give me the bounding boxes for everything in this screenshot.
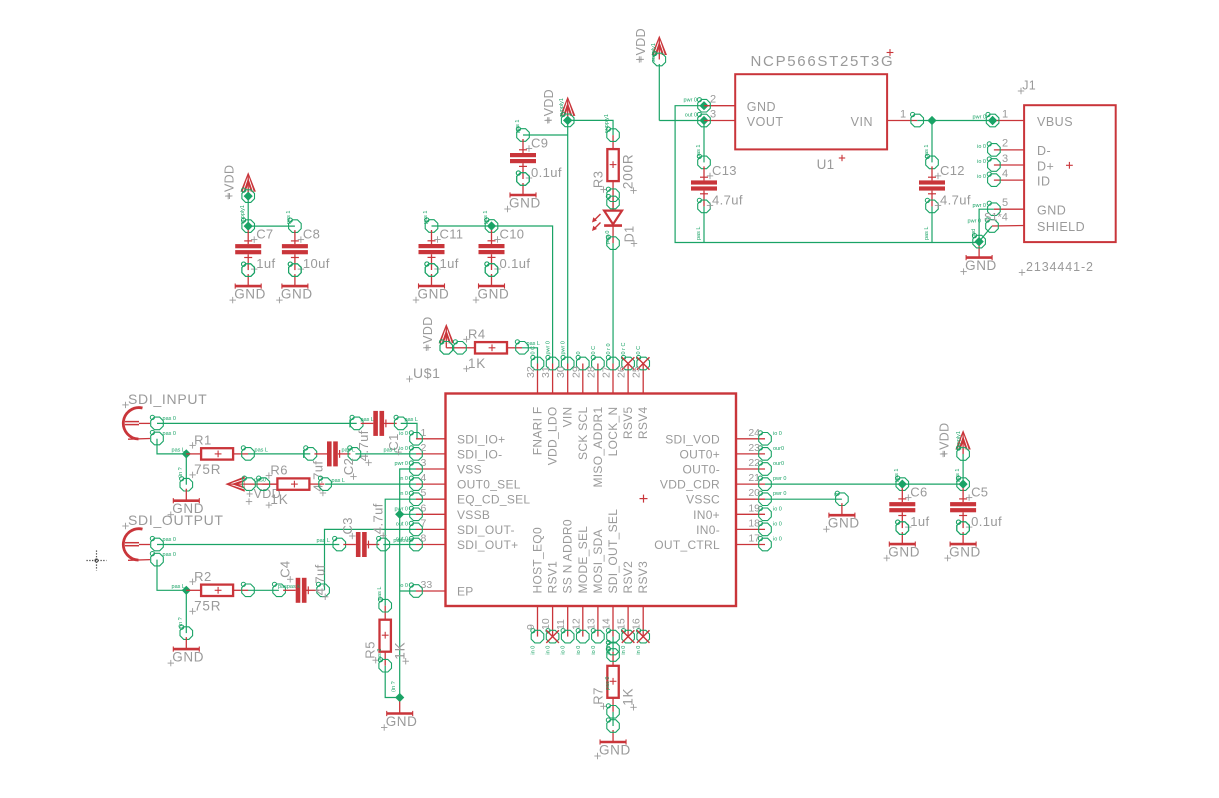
svg-text:in 0: in 0: [531, 646, 537, 655]
svg-text:C6: C6: [910, 485, 927, 500]
svg-text:16: 16: [631, 618, 643, 630]
svg-text:io 0: io 0: [576, 646, 582, 655]
svg-text:4.7uf: 4.7uf: [712, 192, 743, 207]
svg-text:0 r 0: 0 r 0: [606, 343, 612, 354]
svg-text:2: 2: [710, 94, 716, 106]
svg-text:io 0: io 0: [561, 646, 567, 655]
svg-text:pas 1: pas 1: [515, 120, 521, 133]
svg-text:pas L: pas L: [384, 448, 397, 454]
svg-text:io 0: io 0: [773, 506, 782, 512]
svg-text:pas 2: pas 2: [377, 649, 383, 662]
svg-text:C10: C10: [500, 227, 525, 242]
svg-text:supply1: supply1: [956, 431, 962, 450]
svg-text:pwr 0: pwr 0: [773, 476, 786, 482]
svg-text:R7: R7: [591, 687, 606, 705]
svg-text:C3: C3: [340, 517, 355, 534]
svg-text:14: 14: [601, 618, 613, 630]
svg-text:pas L: pas L: [342, 448, 355, 454]
svg-text:pwr 0: pwr 0: [395, 506, 408, 512]
svg-text:GND: GND: [949, 545, 981, 560]
svg-text:EP: EP: [457, 585, 474, 599]
svg-text:5: 5: [1002, 197, 1008, 209]
svg-text:22: 22: [748, 457, 760, 469]
svg-text:R2: R2: [194, 569, 212, 584]
svg-text:0: 0: [576, 351, 582, 354]
svg-text:paspas k: paspas k: [278, 584, 300, 590]
svg-text:26: 26: [616, 366, 628, 378]
svg-text:LOCK_N: LOCK_N: [606, 407, 620, 457]
svg-text:pas 0: pas 0: [163, 552, 176, 558]
svg-text:io 0: io 0: [977, 174, 986, 180]
svg-text:io 0: io 0: [591, 646, 597, 655]
svg-text:pas L: pas L: [405, 417, 418, 423]
svg-text:D+: D+: [1037, 159, 1054, 173]
svg-text:pas L: pas L: [317, 538, 330, 544]
svg-text:pas 1: pas 1: [924, 145, 930, 158]
svg-text:HOST_EQ0: HOST_EQ0: [531, 527, 545, 593]
svg-text:2: 2: [1002, 138, 1008, 150]
svg-text:+VDD: +VDD: [421, 316, 435, 351]
svg-text:C11: C11: [440, 227, 464, 242]
svg-text:+VDD: +VDD: [542, 89, 556, 124]
svg-text:FNARI F: FNARI F: [531, 407, 545, 456]
svg-text:gas L: gas L: [377, 587, 383, 600]
svg-text:in 0: in 0: [546, 646, 552, 655]
svg-text:pas 1: pas 1: [483, 211, 489, 224]
svg-text:5: 5: [421, 487, 427, 499]
svg-text:GND: GND: [172, 650, 204, 665]
svg-text:3: 3: [421, 457, 427, 469]
svg-text:in 0: in 0: [621, 646, 627, 655]
svg-text:RSV4: RSV4: [636, 406, 650, 439]
svg-text:pas 1: pas 1: [423, 211, 429, 224]
svg-text:GND: GND: [965, 258, 997, 273]
svg-text:SS N ADDR0: SS N ADDR0: [561, 519, 575, 593]
svg-text:our0: our0: [773, 461, 784, 467]
svg-text:1K: 1K: [621, 688, 636, 706]
svg-text:0.1uf: 0.1uf: [971, 514, 1002, 529]
svg-text:0.1uf: 0.1uf: [500, 256, 531, 271]
svg-text:supply1: supply1: [604, 114, 610, 133]
svg-text:(in ?: (in ?: [178, 467, 184, 478]
svg-text:supply1: supply1: [559, 98, 565, 117]
svg-text:1uf: 1uf: [910, 514, 929, 529]
svg-text:GND: GND: [478, 287, 510, 302]
svg-text:in 0: in 0: [399, 491, 408, 497]
svg-text:(in ?: (in ?: [178, 617, 184, 628]
svg-text:75R: 75R: [194, 598, 221, 613]
svg-text:1K: 1K: [468, 356, 486, 371]
svg-text:SDI_INPUT: SDI_INPUT: [128, 391, 207, 407]
svg-text:VIN: VIN: [851, 115, 873, 129]
svg-text:32: 32: [525, 366, 537, 378]
svg-text:+VDD: +VDD: [634, 28, 648, 63]
svg-text:R5: R5: [363, 641, 378, 659]
svg-text:31: 31: [540, 366, 552, 378]
svg-text:J1: J1: [1022, 79, 1036, 93]
svg-text:VSS: VSS: [457, 463, 482, 477]
svg-text:S1*4: S1*4: [984, 212, 1008, 224]
svg-text:0 C: 0 C: [636, 346, 642, 355]
svg-text:4.7uf: 4.7uf: [313, 564, 328, 595]
svg-text:0 C: 0 C: [591, 346, 597, 355]
svg-text:21: 21: [748, 472, 760, 484]
svg-text:SDI_OUTPUT: SDI_OUTPUT: [128, 512, 224, 528]
svg-text:RSV3: RSV3: [636, 561, 650, 594]
svg-text:27: 27: [601, 366, 613, 378]
svg-text:7: 7: [421, 517, 427, 529]
svg-text:VSSB: VSSB: [457, 508, 490, 522]
svg-text:pas L: pas L: [696, 227, 702, 240]
svg-text:4.7uf: 4.7uf: [371, 503, 386, 534]
svg-text:4: 4: [421, 472, 427, 484]
svg-text:pas L: pas L: [172, 448, 185, 454]
svg-text:0 r C: 0 r C: [621, 343, 627, 355]
svg-text:pwr 0: pwr 0: [395, 461, 408, 467]
svg-text:io 0: io 0: [977, 159, 986, 165]
svg-text:NCP566ST25T3G: NCP566ST25T3G: [751, 53, 895, 70]
svg-text:pas L: pas L: [527, 341, 540, 347]
svg-text:C13: C13: [712, 163, 737, 178]
svg-text:12: 12: [570, 618, 582, 630]
svg-text:75R: 75R: [194, 462, 221, 477]
svg-text:20: 20: [748, 487, 760, 499]
svg-text:10: 10: [540, 618, 552, 630]
svg-text:VBUS: VBUS: [1037, 115, 1073, 129]
svg-text:24: 24: [748, 427, 760, 439]
svg-text:ID: ID: [1037, 174, 1051, 188]
svg-text:U$1: U$1: [413, 365, 440, 381]
svg-text:200R: 200R: [621, 154, 636, 189]
svg-text:25: 25: [631, 366, 643, 378]
svg-text:our0: our0: [773, 446, 784, 452]
svg-text:pasout0: pasout0: [393, 538, 413, 544]
svg-text:io 0: io 0: [773, 431, 782, 437]
svg-text:2: 2: [421, 442, 427, 454]
svg-text:VOUT: VOUT: [747, 115, 784, 129]
svg-text:4.7uf: 4.7uf: [310, 461, 325, 492]
svg-text:33: 33: [421, 579, 433, 591]
svg-text:17: 17: [748, 533, 760, 545]
svg-text:U1: U1: [817, 157, 835, 172]
svg-text:io 0: io 0: [399, 583, 408, 589]
svg-text:1: 1: [1002, 108, 1008, 120]
svg-text:15: 15: [616, 618, 628, 630]
svg-text:MOSI_SDA: MOSI_SDA: [591, 529, 605, 593]
svg-text:pwr 0: pwr 0: [973, 203, 986, 209]
svg-text:MODE_SEL: MODE_SEL: [576, 526, 590, 594]
svg-text:pwr 0: pwr 0: [968, 219, 981, 225]
svg-text:C8: C8: [303, 227, 320, 242]
svg-text:+VDD: +VDD: [938, 423, 952, 458]
svg-text:8: 8: [421, 533, 427, 545]
svg-text:VDD_LDO: VDD_LDO: [546, 407, 560, 466]
svg-text:RSV5: RSV5: [621, 406, 635, 439]
svg-text:VSSC: VSSC: [686, 493, 720, 507]
svg-text:SHIELD: SHIELD: [1037, 220, 1085, 234]
svg-text:in 0: in 0: [636, 646, 642, 655]
svg-text:0.1uf: 0.1uf: [531, 165, 562, 180]
svg-text:GND: GND: [828, 516, 860, 531]
svg-text:SDI_OUT_SEL: SDI_OUT_SEL: [606, 509, 620, 594]
svg-text:pas 1: pas 1: [286, 211, 292, 224]
svg-text:IN0-: IN0-: [696, 523, 720, 537]
svg-text:OUT0+: OUT0+: [679, 447, 720, 461]
svg-text:IN0+: IN0+: [693, 508, 720, 522]
svg-text:28: 28: [585, 366, 597, 378]
svg-text:pas 1: pas 1: [894, 469, 900, 482]
svg-text:pwr 0: pwr 0: [773, 491, 786, 497]
svg-text:1uf: 1uf: [440, 256, 459, 271]
svg-text:C2: C2: [341, 458, 356, 475]
svg-text:SDI_OUT+: SDI_OUT+: [457, 538, 518, 552]
svg-text:pas L: pas L: [924, 227, 930, 240]
svg-text:SDI_OUT-: SDI_OUT-: [457, 523, 515, 537]
svg-text:29: 29: [570, 366, 582, 378]
svg-text:pas 0: pas 0: [163, 431, 176, 437]
svg-text:pwr 0: pwr 0: [973, 115, 986, 121]
svg-text:C12: C12: [940, 163, 965, 178]
svg-text:VIN: VIN: [561, 407, 575, 428]
svg-text:GND: GND: [418, 287, 450, 302]
svg-text:3: 3: [1002, 153, 1008, 165]
svg-text:out 0: out 0: [396, 521, 408, 527]
svg-text:pas 1: pas 1: [955, 469, 961, 482]
svg-text:1K: 1K: [393, 642, 408, 660]
svg-text:pwr 0: pwr 0: [684, 98, 697, 104]
svg-text:(in ?: (in ?: [391, 681, 397, 692]
svg-text:io 0: io 0: [773, 521, 782, 527]
svg-text:RSV1: RSV1: [546, 561, 560, 594]
svg-text:io 0: io 0: [773, 537, 782, 543]
svg-text:13: 13: [585, 618, 597, 630]
svg-text:EQ_CD_SEL: EQ_CD_SEL: [457, 493, 530, 507]
svg-text:SDI_IO-: SDI_IO-: [457, 447, 502, 461]
svg-text:gnd: gnd: [971, 229, 977, 238]
svg-text:OUT0_SEL: OUT0_SEL: [457, 478, 521, 492]
svg-text:OUT_CTRL: OUT_CTRL: [654, 538, 720, 552]
svg-text:3: 3: [710, 108, 716, 120]
svg-text:19: 19: [748, 502, 760, 514]
svg-text:pas 0: pas 0: [605, 231, 611, 244]
svg-text:OUT0-: OUT0-: [683, 463, 721, 477]
svg-text:D-: D-: [1037, 144, 1051, 158]
svg-text:30: 30: [555, 366, 567, 378]
svg-text:2134441-2: 2134441-2: [1026, 260, 1094, 274]
svg-text:pas 0: pas 0: [163, 537, 176, 543]
svg-text:supply1: supply1: [240, 205, 246, 224]
svg-text:C4: C4: [278, 561, 293, 578]
svg-text:GND: GND: [509, 196, 541, 211]
svg-text:0: 0: [834, 493, 840, 496]
svg-text:R1: R1: [194, 432, 212, 447]
svg-text:pwr 0: pwr 0: [546, 341, 552, 354]
svg-text:R4: R4: [468, 326, 486, 341]
svg-text:supply1: supply1: [651, 43, 657, 62]
svg-text:C7: C7: [256, 227, 273, 242]
svg-text:GND: GND: [281, 287, 313, 302]
svg-text:GND: GND: [386, 714, 418, 729]
svg-text:GND: GND: [234, 287, 266, 302]
svg-text:SDI_VOD: SDI_VOD: [665, 432, 720, 446]
svg-text:pas 0: pas 0: [605, 677, 611, 690]
svg-text:GND: GND: [888, 545, 920, 560]
svg-text:GND: GND: [1037, 204, 1066, 218]
svg-text:MISO_ADDR1: MISO_ADDR1: [591, 406, 605, 487]
svg-text:10uf: 10uf: [303, 256, 330, 271]
svg-text:4: 4: [1002, 168, 1008, 180]
svg-text:C9: C9: [531, 136, 548, 151]
svg-text:1: 1: [421, 427, 427, 439]
svg-text:+VDD: +VDD: [223, 165, 237, 200]
svg-text:pas L: pas L: [361, 417, 374, 423]
svg-text:R3: R3: [591, 170, 606, 188]
svg-text:1K: 1K: [270, 492, 288, 507]
svg-text:GND: GND: [599, 743, 631, 758]
svg-text:4.7uf: 4.7uf: [356, 430, 371, 461]
svg-text:1: 1: [900, 108, 906, 120]
svg-text:4.7uf: 4.7uf: [940, 192, 971, 207]
svg-text:io 0: io 0: [977, 144, 986, 150]
svg-text:RSV2: RSV2: [621, 561, 635, 594]
svg-text:pas 1: pas 1: [696, 145, 702, 158]
svg-text:1uf: 1uf: [256, 256, 275, 271]
svg-text:pas L: pas L: [255, 448, 268, 454]
svg-text:out 0: out 0: [685, 112, 697, 118]
svg-text:pas L: pas L: [332, 478, 345, 484]
svg-text:6: 6: [421, 502, 427, 514]
svg-text:SCK SCL: SCK SCL: [576, 406, 590, 459]
svg-text:9: 9: [525, 624, 537, 630]
svg-text:pas 0: pas 0: [163, 416, 176, 422]
svg-text:C5: C5: [971, 485, 988, 500]
svg-text:pwr 0: pwr 0: [561, 341, 567, 354]
svg-text:D1: D1: [622, 226, 636, 243]
svg-text:0 C: 0 C: [531, 346, 537, 355]
svg-text:18: 18: [748, 517, 760, 529]
svg-text:11: 11: [555, 619, 567, 630]
svg-text:SDI_IO+: SDI_IO+: [457, 432, 505, 446]
svg-text:in 0: in 0: [399, 476, 408, 482]
svg-text:pas L: pas L: [172, 584, 185, 590]
svg-text:GND: GND: [747, 100, 776, 114]
svg-text:23: 23: [748, 442, 760, 454]
svg-text:VDD_CDR: VDD_CDR: [660, 478, 720, 492]
svg-text:R6: R6: [270, 463, 288, 478]
svg-text:pas0: pas0: [254, 478, 266, 484]
